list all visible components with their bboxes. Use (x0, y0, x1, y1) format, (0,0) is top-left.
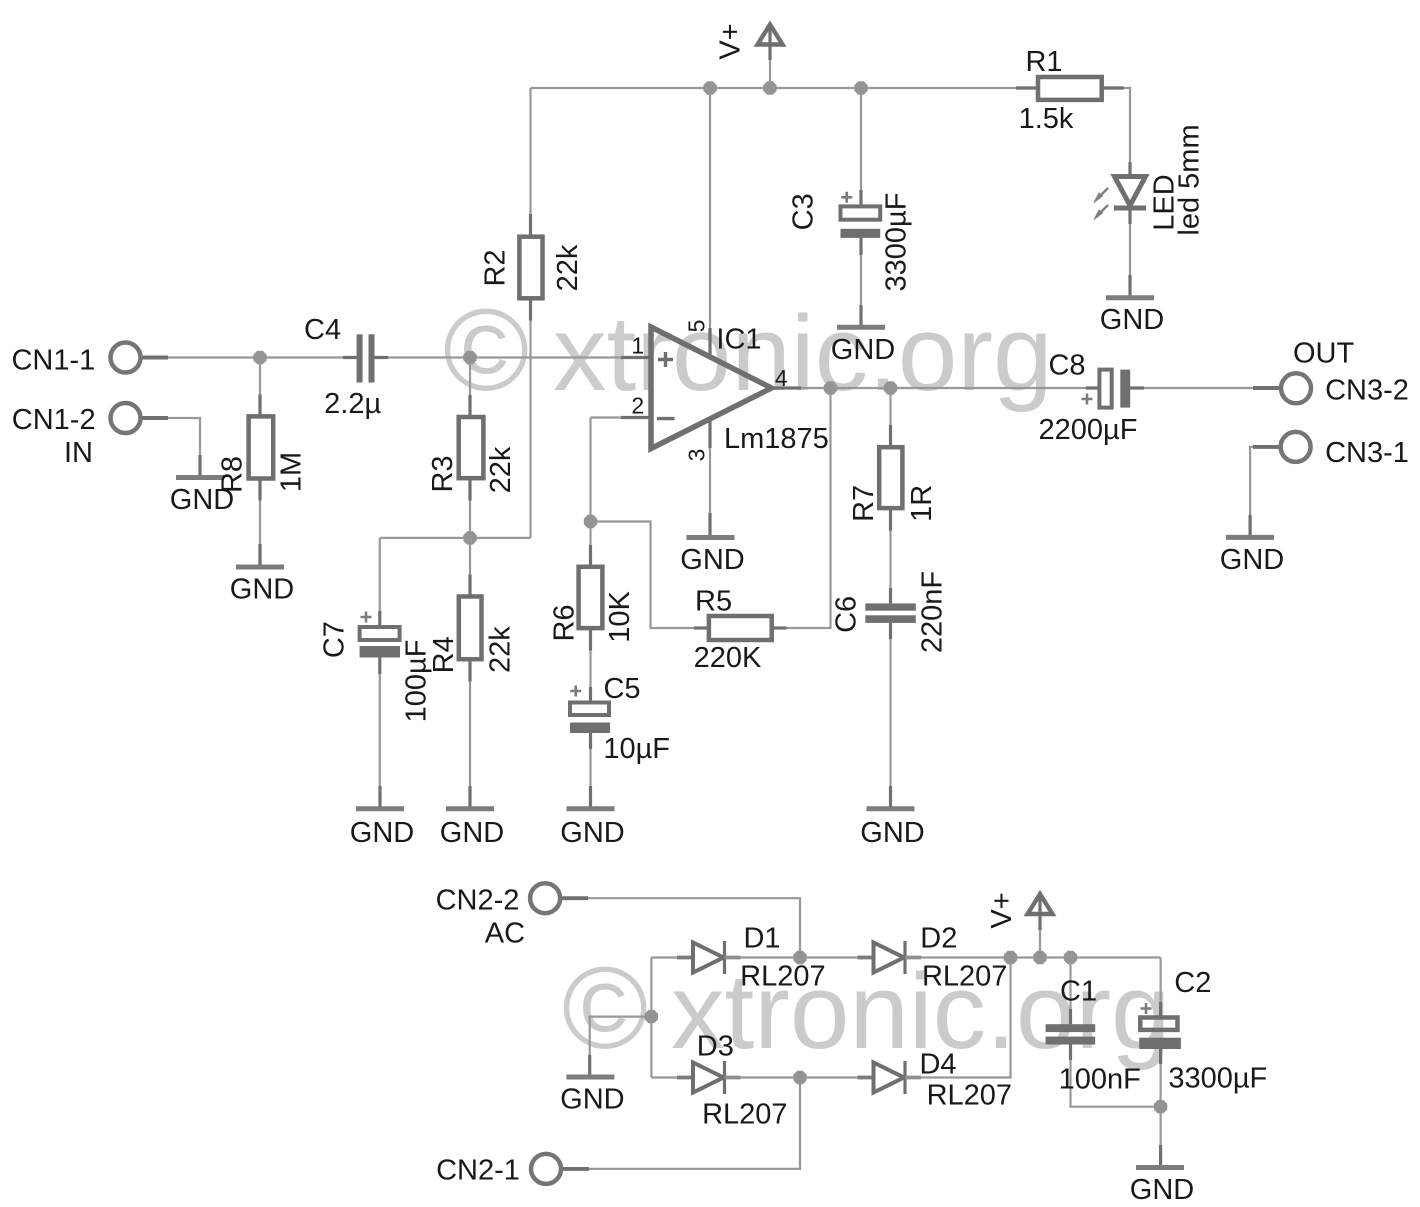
resistor R3 (459, 417, 484, 478)
wire D3 to D4 (728, 1076, 874, 1078)
svg-text:IN: IN (64, 437, 93, 469)
svg-text:GND: GND (230, 574, 294, 606)
wire input CN1-1 to C4 (140, 356, 357, 358)
wire V+ bottom drop (1039, 928, 1041, 958)
svg-text:R8: R8 (217, 456, 249, 493)
svg-text:GND: GND (560, 817, 624, 849)
capacitor C4 (357, 334, 363, 382)
node rail C3 (854, 81, 867, 94)
pin stub GND riser (859, 305, 862, 328)
svg-text:R3: R3 (427, 455, 459, 492)
svg-text:D4: D4 (919, 1049, 956, 1081)
svg-text:2200µF: 2200µF (1039, 414, 1138, 446)
resistor R2 (519, 237, 542, 299)
ground LED (1106, 295, 1154, 300)
svg-text:22k: 22k (484, 626, 516, 673)
resistor R6 (579, 567, 603, 628)
svg-text:22k: 22k (485, 446, 517, 493)
wire R7 to C6 (889, 508, 891, 603)
connector CN2-2 (530, 883, 560, 913)
connector CN1-1 (111, 343, 141, 373)
svg-text:2.2µ: 2.2µ (324, 388, 381, 420)
node bridge plus (1004, 951, 1017, 964)
node AC1 (793, 951, 806, 964)
svg-text:C5: C5 (603, 673, 640, 705)
svg-text:GND: GND (680, 544, 744, 576)
pin stub component lead (589, 545, 592, 567)
pin stub GND riser (588, 1055, 591, 1078)
pin stub component lead (859, 190, 862, 206)
svg-text:C3: C3 (788, 193, 820, 230)
wire node to R4 (469, 538, 471, 597)
svg-text:4: 4 (775, 365, 788, 391)
svg-text:D1: D1 (743, 923, 780, 955)
resistor R4 (459, 597, 482, 660)
svg-text:C7: C7 (319, 621, 351, 658)
capacitor C2 (1140, 1018, 1177, 1030)
pin stub component lead (1159, 1049, 1162, 1064)
wire node to R3 (469, 358, 471, 418)
pin stub component lead (889, 425, 892, 447)
svg-text:220nF: 220nF (917, 571, 949, 653)
pin stub GND riser (1248, 515, 1251, 538)
svg-text:3300µF: 3300µF (1168, 1062, 1267, 1094)
node bridge gnd (645, 1010, 658, 1023)
svg-text:RL207: RL207 (702, 1099, 787, 1131)
svg-text:GND: GND (350, 817, 414, 849)
node rail V+ bottom (1033, 951, 1046, 964)
svg-text:5: 5 (683, 320, 709, 333)
wire R2 bottom lead (529, 298, 531, 538)
wire bridge row2 left (651, 1076, 693, 1078)
svg-text:CN3-1: CN3-1 (1325, 437, 1409, 469)
pin stub component lead (1016, 86, 1038, 89)
svg-text:Lm1875: Lm1875 (724, 423, 829, 455)
wire CN3-1 to GND (1250, 447, 1281, 538)
node feedback (584, 515, 597, 528)
svg-text:RL207: RL207 (740, 961, 825, 993)
wire bridge row1 left (651, 956, 693, 958)
pin stub component lead (258, 479, 261, 501)
pin stub component lead (1069, 1009, 1072, 1024)
pin stub V+ bottom (1038, 897, 1041, 930)
capacitor C7 (360, 627, 400, 640)
connector CN1-2 (111, 403, 141, 433)
pin stub component lead (529, 298, 532, 320)
pin stub component lead (889, 588, 892, 603)
wire rail to C3 (860, 88, 862, 206)
pin stub component lead (378, 658, 381, 675)
svg-text:RL207: RL207 (927, 1080, 1012, 1112)
pin stub CN3-1 (1253, 445, 1281, 449)
node rail V+ (763, 81, 776, 94)
node input B (463, 351, 476, 364)
capacitor C1 (1046, 1024, 1096, 1032)
svg-text:R6: R6 (549, 604, 581, 641)
svg-text:OUT: OUT (1293, 338, 1355, 370)
svg-text:CN1-1: CN1-1 (11, 345, 95, 377)
node AC2 (793, 1071, 806, 1084)
wire R4 to GND (469, 659, 471, 809)
svg-text:1M: 1M (276, 452, 308, 492)
connector CN2-1 (531, 1154, 561, 1184)
ground R4 (446, 806, 494, 811)
pin stub component lead (694, 626, 709, 629)
svg-text:V+: V+ (715, 23, 747, 59)
ground C5 (567, 806, 615, 811)
wire D2 to C2 corner (908, 956, 1161, 958)
wire R3 bottom (469, 478, 471, 538)
resistor R5 (709, 616, 772, 640)
node input A (253, 351, 266, 364)
svg-text:10µF: 10µF (603, 733, 670, 765)
capacitor C3 (841, 206, 881, 219)
pin stub component lead (1069, 1045, 1072, 1061)
wire R1 to LED (1102, 88, 1130, 177)
pin stub component lead (1102, 86, 1124, 89)
wire C8 to CN3-2 (1130, 387, 1281, 389)
svg-text:C4: C4 (304, 314, 341, 346)
pin stub component lead (1128, 162, 1131, 177)
svg-text:CN3-2: CN3-2 (1325, 374, 1409, 406)
pin stub component lead (258, 395, 261, 417)
pin stub GND riser (468, 786, 471, 809)
svg-text:R5: R5 (695, 585, 732, 617)
wire output to R7 (889, 388, 891, 447)
wire V+ arrow drop (769, 58, 771, 88)
svg-text:C1: C1 (1060, 976, 1097, 1008)
wire CN1-2 to GND (140, 418, 200, 478)
wire CN2-2 to bridge (560, 898, 800, 957)
pin stub opamp pin3 (708, 419, 711, 448)
diode D3 (677, 1076, 693, 1080)
svg-text:GND: GND (1100, 304, 1164, 336)
wire V+ rail (531, 87, 1039, 89)
svg-text:GND: GND (860, 817, 924, 849)
svg-text:C8: C8 (1048, 350, 1085, 382)
node output B (884, 381, 897, 394)
pin stub CN1-2 (140, 416, 169, 420)
wire bridge left vertical (650, 958, 652, 1078)
pin stub GND riser (198, 455, 201, 478)
wire pin2 down to node (589, 418, 591, 522)
pin stub component lead (859, 238, 862, 255)
ground C6 (867, 806, 915, 811)
pin stub GND riser (1128, 275, 1131, 298)
svg-text:AC: AC (485, 917, 525, 949)
svg-text:R2: R2 (480, 249, 512, 286)
svg-text:GND: GND (1220, 544, 1284, 576)
svg-text:V+: V+ (986, 892, 1018, 928)
pin stub component lead (468, 478, 471, 500)
connector CN3-1 (1281, 432, 1311, 462)
svg-text:C6: C6 (831, 596, 863, 633)
svg-text:©: © (562, 942, 648, 1073)
svg-text:D2: D2 (920, 923, 957, 955)
svg-text:R7: R7 (848, 485, 880, 522)
capacitor C5 (570, 703, 609, 716)
svg-text:220K: 220K (694, 642, 762, 674)
wire D1 to D2 (728, 956, 874, 958)
op-amp IC1 (651, 327, 772, 449)
wire LED to GND (1129, 208, 1131, 298)
pin stub component lead (468, 575, 471, 597)
ground C7 (356, 806, 404, 811)
svg-text:10K: 10K (604, 591, 636, 643)
LED emission arrows (1098, 188, 1108, 198)
node R3 bottom (463, 531, 476, 544)
pin stub component lead (889, 623, 892, 639)
wire R6 to C5 (589, 628, 591, 702)
pin stub CN2-2 (560, 896, 588, 900)
svg-text:R4: R4 (428, 636, 460, 673)
ground bridge (566, 1075, 614, 1080)
pin stub CN1-1 (140, 356, 169, 360)
wire C2 to GND (1159, 1049, 1161, 1168)
svg-text:GND: GND (440, 817, 504, 849)
wire C7 to GND (379, 658, 381, 809)
wire R3 bottom node horizontal (380, 537, 531, 539)
svg-text:1: 1 (631, 332, 644, 358)
diode D4 (858, 1076, 874, 1080)
svg-text:C2: C2 (1174, 967, 1211, 999)
pin stub component lead (589, 628, 592, 650)
pin stub component lead (1128, 209, 1131, 224)
node rail C1 (1064, 951, 1077, 964)
svg-text:1.5k: 1.5k (1019, 103, 1074, 135)
wire corner to C2 (1159, 958, 1161, 1018)
diode D1 (677, 956, 693, 960)
wire D4 up to rail (908, 958, 1011, 1078)
svg-text:GND: GND (831, 334, 895, 366)
power V+ bottom (1028, 894, 1053, 914)
wire C5 to GND (589, 733, 591, 809)
wire CN2-1 to bridge (561, 1078, 800, 1169)
pin stub V+ top (768, 28, 771, 60)
svg-text:RL207: RL207 (922, 961, 1007, 993)
ground CN3-1 (1226, 535, 1274, 540)
capacitor C8 (1099, 370, 1111, 408)
pin stub component lead (375, 356, 389, 359)
pin stub GND riser (708, 513, 711, 536)
pin stub component lead (589, 733, 592, 749)
svg-text:1R: 1R (906, 485, 938, 522)
pin stub GND riser (589, 786, 592, 809)
wire opamp output (772, 387, 1100, 389)
wire bridge GND stub (590, 1017, 652, 1077)
svg-text:D3: D3 (697, 1031, 734, 1063)
wire C3 to GND (860, 238, 862, 327)
svg-text:©: © (443, 284, 529, 415)
connector CN3-2 (1281, 373, 1311, 403)
svg-text:3300µF: 3300µF (881, 193, 913, 292)
pin stub component lead (468, 395, 471, 417)
wire R8 top lead (259, 358, 261, 417)
node output A (824, 381, 837, 394)
power V+ top (758, 25, 783, 45)
svg-text:CN1-2: CN1-2 (12, 404, 96, 436)
wire rail to C1 (1069, 958, 1071, 1025)
ground pin3 (687, 535, 735, 540)
pin stub CN2-1 (561, 1167, 589, 1171)
LED (1115, 177, 1146, 206)
pin stub component lead (1086, 386, 1099, 389)
ground CN1-2 (176, 475, 224, 480)
svg-text:100nF: 100nF (1059, 1064, 1141, 1096)
pin stub component lead (1130, 386, 1144, 389)
pin stub GND riser (378, 786, 381, 809)
pin stub component lead (772, 626, 787, 629)
svg-text:R1: R1 (1025, 46, 1062, 78)
pin stub opamp pin4 (772, 386, 801, 389)
svg-text:3: 3 (683, 449, 709, 462)
pin stub component lead (1159, 1002, 1162, 1018)
svg-text:GND: GND (560, 1084, 624, 1116)
diode D2 (858, 956, 874, 960)
capacitor C6 (865, 603, 916, 610)
resistor R1 (1038, 77, 1102, 100)
svg-text:IC1: IC1 (716, 324, 761, 356)
pin stub CN3-2 (1253, 386, 1282, 390)
resistor R7 (879, 447, 902, 508)
svg-text:22k: 22k (552, 244, 584, 291)
ground C3 (837, 325, 885, 330)
svg-text:100µF: 100µF (400, 640, 432, 723)
wire pin2 horizontal (591, 416, 652, 418)
pin stub component lead (889, 508, 892, 530)
pin stub opamp pin5 (708, 328, 711, 356)
wire R8 to GND (259, 479, 261, 568)
wire R5 right to output (772, 388, 831, 628)
wire C1 bottom (1071, 1045, 1161, 1107)
resistor R8 (249, 416, 274, 478)
wire C6 to GND (889, 623, 891, 809)
wire R2 top lead (529, 88, 531, 237)
pin stub component lead (343, 356, 357, 359)
svg-text:led 5mm: led 5mm (1174, 124, 1206, 235)
wire C4 to opamp pin1 (375, 356, 652, 358)
wire pin3 to GND (709, 419, 711, 535)
node C1 C2 bottom (1154, 1100, 1167, 1113)
svg-text:GND: GND (1130, 1174, 1194, 1206)
wire node to R5 left (591, 522, 709, 629)
pin stub component lead (468, 659, 471, 681)
ground C2 (1136, 1165, 1184, 1170)
pin stub GND riser (1159, 1145, 1162, 1168)
pin stub component lead (529, 214, 532, 237)
ground R8 (236, 565, 284, 570)
wire node to C7 (379, 538, 381, 627)
wire pin5 drop (709, 88, 711, 357)
pin stub component lead (378, 611, 381, 627)
svg-text:CN2-1: CN2-1 (436, 1155, 520, 1187)
pin stub component lead (589, 687, 592, 703)
pin stub GND riser (258, 544, 261, 567)
svg-text:xtronic.org: xtronic.org (553, 293, 1053, 413)
node rail pin5 (703, 81, 716, 94)
svg-text:2: 2 (631, 392, 644, 418)
svg-text:CN2-2: CN2-2 (436, 884, 520, 916)
pin stub opamp pin1 (621, 356, 650, 359)
pin stub opamp pin2 (621, 416, 650, 419)
wire node to R6 (589, 522, 591, 567)
pin stub GND riser (889, 786, 892, 809)
